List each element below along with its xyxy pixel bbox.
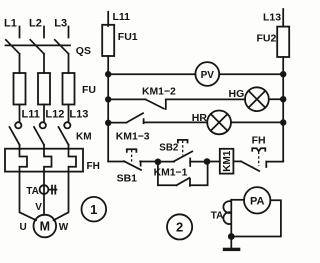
circuit designation 1	[82, 197, 107, 222]
svg-text:M: M	[40, 219, 50, 233]
contactor KM main contact pole 1	[10, 122, 22, 145]
svg-text:KM: KM	[76, 131, 92, 142]
label L1	[4, 18, 17, 30]
wire rail 3 right	[231, 121, 283, 123]
contact FH (NC thermal)	[241, 148, 266, 171]
contactor KM main contact pole 2	[34, 122, 46, 145]
contact KM1-3 (NO)	[126, 113, 143, 123]
wire rail 2 middle	[166, 98, 245, 100]
svg-text:L11: L11	[22, 109, 40, 121]
fuse FU phase 2	[38, 73, 50, 105]
node dot left rail / rail2	[105, 96, 111, 102]
svg-text:L12: L12	[45, 109, 64, 121]
ground	[223, 237, 241, 252]
contact KM1-2 (NO)	[146, 99, 166, 109]
svg-text:TA: TA	[211, 211, 224, 222]
svg-text:HG: HG	[229, 88, 245, 100]
wire KM to FH pole 2	[43, 145, 45, 149]
node B dot	[204, 158, 211, 165]
node dot left rail / rail1	[105, 71, 111, 77]
label QS	[76, 45, 91, 57]
label FU1	[118, 31, 138, 43]
svg-text:SB1: SB1	[117, 172, 138, 184]
wire SB2 to node B	[190, 161, 207, 163]
node dot left rail / rail3	[105, 120, 111, 126]
label FU	[82, 84, 96, 96]
wire FH to motor phase 2 (through TA)	[43, 172, 45, 215]
pushbutton SB2 (NO start)	[158, 140, 192, 166]
label W	[59, 222, 69, 233]
ammeter PA	[244, 187, 270, 213]
svg-text:U: U	[20, 222, 27, 233]
wire L3 entry stub	[68, 27, 70, 38]
svg-text:FU: FU	[82, 84, 96, 96]
thermal relay FH heater element pole 1	[20, 149, 28, 172]
contactor KM main contact pole 3	[59, 122, 71, 145]
label L13 (control feed)	[263, 12, 281, 24]
wire row 4 from left rail	[108, 161, 123, 163]
wire FU to KM phase 2 / node L12	[43, 105, 45, 123]
switch QS pole 3 blade	[55, 40, 69, 54]
wire node B to coil	[207, 161, 220, 163]
label KM	[76, 131, 92, 142]
contact KM1-1 (seal-in branch)	[158, 162, 208, 186]
label TA (secondary)	[211, 211, 224, 222]
svg-text:L11: L11	[113, 11, 131, 23]
svg-text:TA: TA	[26, 186, 39, 197]
thermal relay FH box	[5, 149, 83, 172]
wire left rail	[107, 56, 109, 162]
label KM1-1	[154, 168, 188, 179]
svg-text:L13: L13	[69, 109, 88, 121]
svg-text:L2: L2	[29, 18, 42, 30]
wire KM to FH pole 3	[68, 145, 70, 149]
svg-text:W: W	[59, 222, 69, 233]
current transformer TA	[40, 185, 57, 194]
wire right rail top	[282, 9, 284, 27]
svg-text:2: 2	[176, 220, 183, 235]
wire SB1 to node A	[140, 161, 158, 163]
svg-text:KM1−1: KM1−1	[154, 168, 188, 179]
wire rail 3 middle	[144, 121, 208, 123]
pushbutton SB1 (NC stop)	[124, 149, 141, 170]
svg-text:V: V	[35, 202, 42, 213]
wire QS to FU phase 3	[68, 54, 70, 73]
wire rail 2 right	[269, 98, 283, 100]
fuse FU1	[102, 25, 114, 56]
label FH	[87, 161, 100, 172]
label L11	[22, 109, 40, 121]
wire QS to FU phase 2	[43, 54, 45, 73]
wire L2 entry stub	[43, 27, 45, 38]
switch QS pole 1 blade	[6, 40, 20, 54]
label KM1-3	[116, 131, 150, 142]
svg-text:FH: FH	[87, 161, 100, 172]
switch QS linkage bar	[6, 44, 71, 46]
svg-text:KM1−3: KM1−3	[116, 131, 150, 142]
wire rail 3 left	[108, 122, 126, 124]
wire right rail	[282, 57, 284, 162]
label SB1	[117, 172, 138, 184]
svg-text:FU2: FU2	[257, 32, 277, 44]
wire FH to motor phase 1	[20, 172, 37, 221]
svg-text:SB2: SB2	[159, 142, 179, 153]
fuse FU2	[277, 27, 289, 57]
svg-text:L1: L1	[4, 18, 17, 30]
node dot right rail / rail3	[280, 119, 286, 125]
thermal relay FH heater element pole 2	[44, 149, 52, 172]
label V	[35, 202, 42, 213]
wire FU to KM phase 1 / node L11	[19, 105, 21, 123]
node A dot	[155, 159, 162, 166]
svg-text:PV: PV	[201, 70, 215, 81]
label L3	[54, 18, 67, 30]
label HG	[229, 88, 245, 100]
svg-text:KM1: KM1	[222, 150, 233, 172]
current transformer TA secondary	[223, 200, 231, 237]
wire left rail top	[107, 12, 109, 26]
wire FU to KM phase 3 / node L13	[68, 105, 70, 123]
wire PA loop right/bottom	[231, 200, 281, 236]
voltmeter PV	[195, 62, 219, 86]
wire coil to FH contact	[233, 160, 241, 162]
motor M	[34, 215, 57, 238]
label L11 (control feed)	[113, 11, 131, 23]
label TA	[26, 186, 39, 197]
wire rail 1 left (to PV)	[108, 73, 195, 75]
svg-text:KM1−2: KM1−2	[142, 87, 176, 98]
svg-text:1: 1	[90, 202, 97, 217]
label FH (control contact)	[252, 134, 266, 146]
label KM1-2	[142, 87, 176, 98]
lamp HG	[245, 87, 269, 111]
switch QS pole 2 blade	[30, 40, 44, 54]
node dot right rail / rail1	[280, 71, 286, 77]
svg-text:L3: L3	[54, 18, 67, 30]
wire L1 entry stub	[19, 27, 21, 38]
svg-text:FU1: FU1	[118, 31, 138, 43]
svg-text:HR: HR	[192, 112, 208, 124]
thermal relay FH heater element pole 3	[69, 149, 77, 172]
lamp HR	[207, 111, 231, 135]
svg-text:L13: L13	[263, 12, 281, 24]
label L12	[45, 109, 64, 121]
wire TA to PA	[231, 199, 244, 201]
svg-text:FH: FH	[252, 134, 266, 146]
svg-text:PA: PA	[250, 195, 265, 207]
node dot right rail / rail2	[280, 96, 286, 102]
svg-text:QS: QS	[76, 45, 91, 57]
wire QS to FU phase 1	[19, 54, 21, 73]
wire KM to FH pole 1	[19, 145, 21, 149]
fuse FU phase 3	[63, 73, 75, 105]
label L13	[69, 109, 88, 121]
label HR	[192, 112, 208, 124]
label L2	[29, 18, 42, 30]
fuse FU phase 1	[14, 73, 26, 105]
label SB2	[159, 142, 179, 153]
node C dot	[228, 233, 235, 240]
wire rail 1 right	[219, 73, 283, 75]
wire FH to motor phase 3	[54, 172, 69, 221]
label U	[20, 222, 27, 233]
coil KM1	[220, 149, 234, 174]
circuit designation 2	[167, 214, 192, 239]
wire rail 2 left	[108, 98, 145, 100]
label FU2	[257, 32, 277, 44]
wire FH contact to right rail	[266, 160, 283, 163]
